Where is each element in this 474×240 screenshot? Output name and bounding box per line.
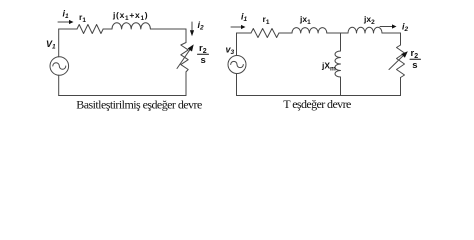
- arrowhead i1 left: [69, 20, 74, 24]
- wire: [400, 78, 402, 96]
- source v3 circle: [228, 56, 246, 74]
- wire bottom right circuit: [237, 95, 401, 97]
- arrowhead i2 right: [392, 24, 397, 28]
- svg-text:r2: r2: [411, 48, 419, 60]
- svg-text:jx2: jx2: [363, 14, 375, 26]
- svg-text:V1: V1: [46, 39, 56, 51]
- inductor jXm vertical: [335, 51, 341, 77]
- arrowhead variable resistor left: [188, 44, 194, 51]
- wire left vertical right circuit bottom: [236, 74, 238, 96]
- svg-text:i1: i1: [241, 12, 248, 24]
- svg-text:i2: i2: [198, 20, 205, 32]
- svg-text:r1: r1: [79, 12, 86, 24]
- sine inside v3: [231, 61, 244, 67]
- wire: [279, 32, 292, 34]
- current arrow i1 left: [58, 21, 69, 23]
- current arrow i2 right: [380, 26, 392, 28]
- inductor j(x1+x1): [112, 23, 150, 29]
- wire left circuit top: [59, 28, 77, 30]
- svg-text:T eşdeğer devre: T eşdeğer devre: [283, 97, 351, 111]
- wire: [185, 72, 187, 96]
- svg-text:s: s: [201, 55, 206, 66]
- wire right circuit top: [237, 32, 252, 34]
- resistor r1 right: [251, 29, 279, 38]
- svg-text:s: s: [412, 60, 417, 71]
- arrowhead i1 right: [241, 25, 246, 29]
- wire middle branch top: [340, 33, 342, 51]
- svg-text:r1: r1: [263, 14, 270, 26]
- wire left vertical bottom part: [58, 75, 60, 95]
- wire: [382, 32, 401, 34]
- variable resistor arrow left: [177, 50, 190, 69]
- svg-text:Basitleştirilmiş eşdeğer devre: Basitleştirilmiş eşdeğer devre: [76, 98, 202, 112]
- wire right vertical top: [400, 33, 402, 45]
- wire: [103, 28, 112, 30]
- source V1 circle: [50, 57, 69, 76]
- svg-text:v3: v3: [226, 45, 235, 57]
- current arrow i1 right: [231, 26, 241, 28]
- svg-text:jx1: jx1: [299, 14, 311, 26]
- variable resistor arrow right: [389, 56, 403, 70]
- wire right side down: [185, 29, 187, 43]
- variable resistor r2/s right zigzag: [397, 45, 405, 78]
- wire: [327, 32, 348, 34]
- current arrow i2 left vertical: [191, 22, 193, 31]
- fraction bar r2/s left: [198, 53, 209, 55]
- inductor jx2: [348, 27, 382, 33]
- svg-text:jXm: jXm: [321, 61, 336, 73]
- fraction bar r2/s right: [410, 58, 421, 60]
- svg-text:r2: r2: [199, 43, 207, 55]
- svg-text:j(x1+x1): j(x1+x1): [112, 10, 148, 22]
- wire bottom left circuit: [59, 95, 186, 97]
- arrowhead variable resistor right: [401, 51, 408, 58]
- svg-text:i2: i2: [402, 22, 409, 34]
- wire: [150, 28, 186, 30]
- wire middle branch bottom: [340, 77, 342, 96]
- wire left vertical top part: [58, 29, 60, 57]
- resistor R1 left: [77, 25, 103, 34]
- wire left vertical right circuit top: [236, 33, 238, 56]
- sine inside V1: [53, 63, 66, 70]
- svg-text:i1: i1: [63, 9, 70, 21]
- inductor jx1: [292, 28, 327, 33]
- arrowhead i2 left: [190, 30, 194, 36]
- variable resistor r2/s left zigzag: [181, 43, 188, 72]
